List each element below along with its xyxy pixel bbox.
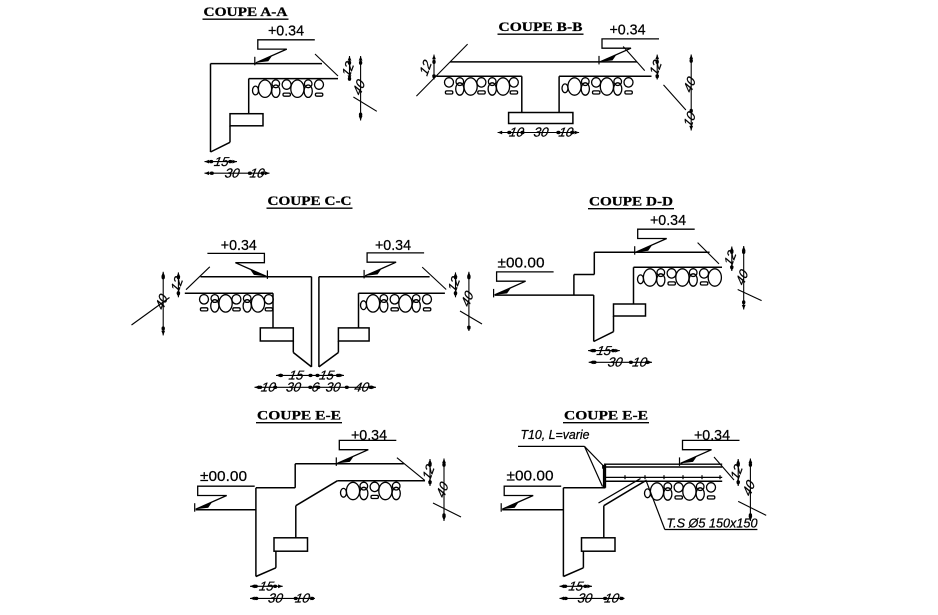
svg-text:+0.34: +0.34 — [610, 22, 646, 39]
svg-text:+0.34: +0.34 — [650, 212, 686, 229]
svg-text:COUPE B-B: COUPE B-B — [499, 19, 583, 34]
svg-text:T10, L=varie: T10, L=varie — [521, 428, 590, 442]
svg-text:COUPE A-A: COUPE A-A — [204, 4, 289, 19]
svg-text:±00.00: ±00.00 — [507, 468, 554, 485]
svg-text:+0.34: +0.34 — [694, 427, 730, 444]
svg-text:COUPE D-D: COUPE D-D — [589, 194, 673, 209]
svg-text:COUPE E-E: COUPE E-E — [564, 408, 648, 423]
svg-text:+0.34: +0.34 — [375, 237, 411, 254]
svg-text:+0.34: +0.34 — [268, 23, 304, 40]
svg-text:±00.00: ±00.00 — [498, 255, 545, 272]
svg-text:+0.34: +0.34 — [221, 237, 257, 254]
svg-text:COUPE E-E: COUPE E-E — [257, 408, 341, 423]
svg-text:±00.00: ±00.00 — [200, 468, 247, 485]
svg-text:+0.34: +0.34 — [351, 427, 387, 444]
svg-text:COUPE C-C: COUPE C-C — [268, 193, 352, 208]
svg-text:T.S Ø5 150x150: T.S Ø5 150x150 — [667, 517, 758, 531]
